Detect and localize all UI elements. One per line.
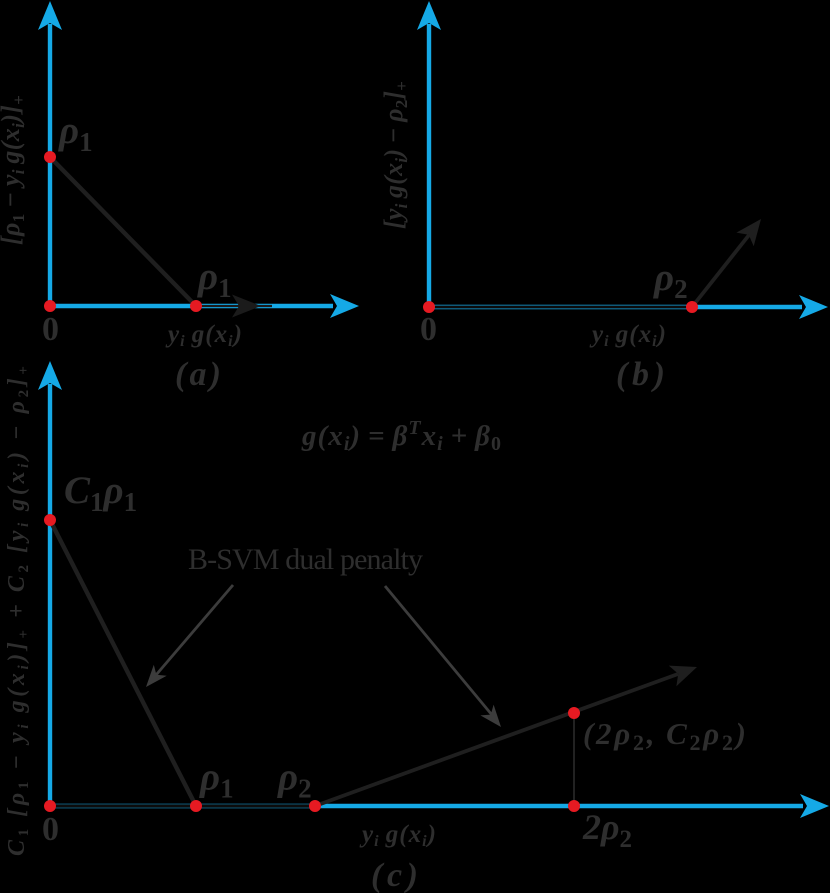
hinge line c <box>50 520 196 806</box>
svg-text:0: 0 <box>42 311 59 348</box>
svg-text:0: 0 <box>42 811 59 848</box>
y axis b <box>417 1 441 309</box>
annotation arrow left <box>146 585 233 687</box>
svg-text:B-SVM dual penalty: B-SVM dual penalty <box>188 543 423 576</box>
svg-text:(b): (b) <box>616 356 665 393</box>
rising arrow b <box>692 219 761 307</box>
svg-text:(a): (a) <box>175 356 221 393</box>
flat arrow a (black over axis) <box>198 295 272 318</box>
dots b <box>423 301 698 313</box>
rising arrow c <box>315 666 697 806</box>
annotation arrow right <box>385 586 501 727</box>
svg-text:g(xi) = βTxi + β0: g(xi) = βTxi + β0 <box>301 417 501 455</box>
x axis c <box>48 794 829 818</box>
dots a <box>44 151 202 312</box>
y axis a <box>38 1 62 308</box>
y axis c <box>38 361 62 808</box>
svg-text:0: 0 <box>420 311 437 348</box>
x axis a <box>48 294 359 318</box>
x axis b <box>427 295 828 319</box>
hinge line a <box>50 157 196 306</box>
svg-text:(c): (c) <box>371 857 418 893</box>
flat dark line b <box>429 306 692 309</box>
flat dark line c <box>52 804 313 807</box>
vertical thin line c <box>573 716 575 803</box>
dots c <box>44 514 580 812</box>
